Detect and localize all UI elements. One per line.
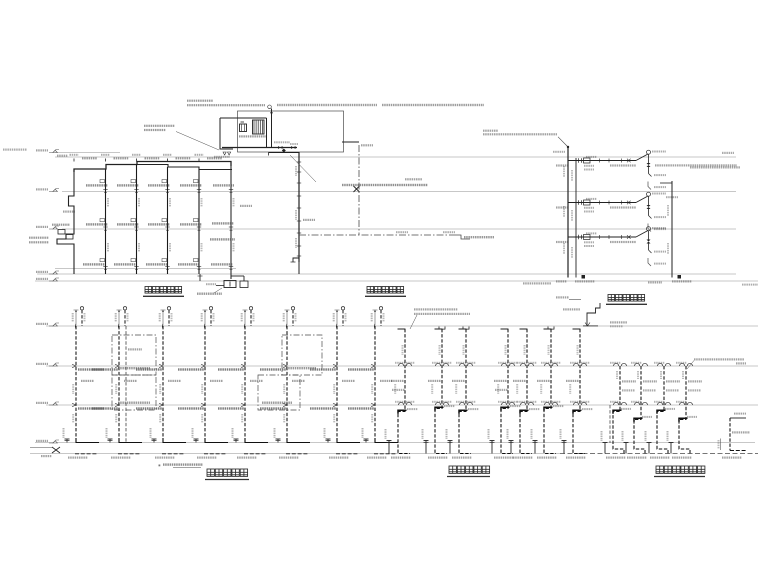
zone supply dashdot horizontal xyxy=(299,234,453,236)
condensate riser NL-3 pipe xyxy=(657,366,668,454)
right edge tiny text below ground xyxy=(742,284,758,286)
rain riser YL-4 bottom label xyxy=(494,457,514,459)
rain riser YL-5 bottom label xyxy=(513,457,533,459)
left margin note two lines xyxy=(29,237,49,239)
top right JL label xyxy=(722,152,734,154)
rain riser YL-2 floor symbols xyxy=(436,363,441,366)
sewage riser WL-1 label xyxy=(81,380,94,382)
supply right column extra row xyxy=(210,238,235,240)
label TL-2 near box xyxy=(128,348,142,350)
sewage riser WL-6 label xyxy=(292,380,305,382)
condensate riser NL-1 pipe xyxy=(613,366,624,454)
rain riser YL-1 pipe xyxy=(398,329,410,454)
riser JL-3 xyxy=(136,165,138,275)
condensate short riser far right xyxy=(730,417,746,419)
riser JL-4 xyxy=(167,167,169,274)
elevation flag y405 xyxy=(49,402,59,405)
plant manifold pipe xyxy=(222,147,297,149)
branch valve ticks xyxy=(599,159,601,163)
condensate riser NL-4 floor symbols xyxy=(680,363,685,366)
supply header XL labels xyxy=(82,157,97,159)
sewage riser WL-2 bottom label xyxy=(118,453,140,455)
rain riser YL-6 cleanout stub xyxy=(534,441,536,454)
condensate riser NL-2 floor symbols xyxy=(635,363,640,366)
elevation flag y281 xyxy=(49,278,59,281)
small meter boxes left xyxy=(58,230,65,235)
rain riser YL-6 bottom label xyxy=(537,457,557,459)
sewage riser WL-1 pipe xyxy=(75,326,77,443)
condensate riser NL-1 floor symbols xyxy=(614,363,619,366)
sprinkler heads count text xyxy=(610,206,636,208)
elevation flag y443 zero xyxy=(49,440,59,443)
test valve lower xyxy=(648,258,651,266)
sprinkler riser top flag xyxy=(558,137,568,147)
rain riser YL-7 floor symbols xyxy=(574,363,579,366)
condensate riser NL-2 label xyxy=(643,380,657,382)
rain riser YL-4 pipe xyxy=(501,329,513,454)
sewage riser WL-8 label xyxy=(380,380,393,382)
bathroom detail dashdot box lower xyxy=(112,375,156,410)
sewage riser WL-7 crossing texts xyxy=(310,368,336,370)
steam inlet circle xyxy=(268,105,272,109)
sewage riser WL-1 bottom label xyxy=(75,453,97,455)
supply block floor-crossing valve ticks xyxy=(103,189,107,191)
elevation mark -1.500 top left corner xyxy=(3,149,27,151)
floor line y191 xyxy=(62,191,736,193)
floor line y268 left block xyxy=(55,268,236,270)
sprinkler branch line xyxy=(568,160,636,162)
sewage riser WL-5 crossing texts xyxy=(218,368,244,370)
rain riser YL-1 bottom label xyxy=(391,457,411,459)
drain connection at roof line xyxy=(583,325,598,327)
sewage riser WL-3 bottom label xyxy=(162,453,184,455)
sewage riser WL-2 label xyxy=(124,380,137,382)
sprinkler right riser xyxy=(671,181,673,278)
floor line y274 xyxy=(37,273,736,275)
rain riser YL-7 label xyxy=(566,380,579,382)
rain riser YL-2 roof elbow xyxy=(435,329,443,331)
sewage riser WL-7 bottom label xyxy=(336,453,358,455)
sewage riser WL-6 vent xyxy=(292,310,294,326)
condensate riser NL-2 cleanout stub xyxy=(625,443,627,454)
steam source note line2 xyxy=(187,104,265,106)
rain riser YL-5 roof elbow xyxy=(520,329,528,331)
rain riser YL-1 roof elbow xyxy=(398,329,406,331)
elevation flag y366 xyxy=(49,363,59,366)
sprinkler second riser xyxy=(575,158,577,278)
condensate riser NL-2 pipe xyxy=(634,366,645,454)
sprinkler drain hook below title xyxy=(587,303,600,326)
condensate riser NL-1 bottom label xyxy=(606,457,626,459)
rain riser YL-1 floor symbols xyxy=(399,363,404,366)
sewage riser WL-5 vent xyxy=(250,310,252,326)
sewage riser WL-4 pipe xyxy=(204,326,206,443)
drop with bowtie valve xyxy=(648,154,650,163)
branch valve ticks xyxy=(599,201,601,205)
condensate riser NL-3 floor symbols xyxy=(658,363,663,366)
sewage riser WL-1 vent xyxy=(81,310,83,326)
supply header riser top ticks xyxy=(73,159,75,162)
rain riser YL-2 pipe xyxy=(435,329,447,454)
sewage riser WL-7 pipe xyxy=(336,326,338,443)
rain riser YL-3 floor symbols xyxy=(460,363,465,366)
sewage riser WL-4 bottom label xyxy=(204,453,226,455)
floor line y453 basement xyxy=(30,453,560,455)
sprinkler note line1 xyxy=(483,130,498,132)
rain riser YL-5 label xyxy=(513,380,526,382)
test valve lower xyxy=(648,224,651,232)
floor line top -1.500 (left stub) xyxy=(55,152,120,154)
sewage riser WL-8 crossing texts xyxy=(348,368,374,370)
hot water note right xyxy=(277,104,377,106)
sprinkler long note floor3 xyxy=(655,164,737,166)
sewage riser WL-7 vent xyxy=(342,310,344,326)
supply row2 right column xyxy=(212,222,233,224)
sprinkler branch line xyxy=(568,202,636,204)
heat exchanger tank 2 xyxy=(253,120,265,134)
rain riser YL-7 bottom label xyxy=(566,457,586,459)
riser DN labels between floors xyxy=(107,198,109,206)
manifold valve bowtie 2 xyxy=(291,146,296,149)
flow indicator circle xyxy=(647,227,651,231)
supply text row1 fixtures xyxy=(86,184,107,186)
rain riser YL-6 label xyxy=(537,380,550,382)
hot water plant room box xyxy=(238,111,344,152)
note above sewage title xyxy=(163,463,203,465)
title 雨水原理图 xyxy=(449,466,456,473)
riser JL-5 xyxy=(198,170,200,275)
sewage riser WL-6 pipe xyxy=(286,326,288,443)
pump spec text Q=0.3L/s xyxy=(342,184,428,186)
rain riser YL-6 floor symbols xyxy=(545,363,550,366)
supply text row3 fixtures xyxy=(83,263,104,265)
small riser tick near x200 xyxy=(199,274,201,281)
title 凝结水原理图 xyxy=(656,466,663,473)
test valve lower xyxy=(648,182,651,190)
bathroom detail box second upper xyxy=(282,335,322,375)
supply row1 right column xyxy=(213,184,234,186)
bottom connection labels xyxy=(523,282,551,284)
branch ZPL label left xyxy=(556,164,568,166)
condensate riser NL-1 label xyxy=(622,380,636,382)
rain riser YL-4 cleanout stub xyxy=(491,441,493,454)
condensate note right xyxy=(694,358,744,360)
condensate riser NL-4 label xyxy=(688,380,702,382)
black square marker left xyxy=(582,275,586,279)
elevation flag y326 xyxy=(49,323,59,326)
branch ZPL label left xyxy=(556,241,568,243)
leader diagonal xyxy=(176,132,219,151)
rain riser YL-7 pipe xyxy=(573,329,585,454)
sewage riser WL-8 vent xyxy=(380,310,382,326)
flow indicator riser diagonal xyxy=(636,196,648,203)
tank labels xyxy=(239,135,267,137)
sewage riser WL-3 vent xyxy=(168,310,170,326)
alarm valve assembly xyxy=(578,158,580,162)
drop with bowtie valve xyxy=(648,231,650,240)
rain riser YL-5 pipe xyxy=(520,329,532,454)
rain riser YL-3 roof elbow xyxy=(459,329,467,331)
rain riser YL-1 cleanout stub xyxy=(388,441,390,454)
condensate riser NL-3 label xyxy=(666,380,680,382)
steam source note line1 xyxy=(187,100,213,102)
rain riser YL-1 label xyxy=(391,380,404,382)
sewage riser WL-4 label xyxy=(210,380,223,382)
right margin note continuation xyxy=(690,166,740,168)
pump X symbol xyxy=(354,186,360,192)
manifold below valve diamond xyxy=(282,149,286,153)
supply text row2 fixtures xyxy=(86,223,107,225)
title 喷淋原理图 xyxy=(608,295,615,302)
elevation flag y191 xyxy=(49,189,59,192)
rain riser YL-3 pipe xyxy=(459,329,471,454)
flow indicator riser diagonal xyxy=(636,154,648,161)
condensate riser NL-1 cleanout stub xyxy=(604,443,606,454)
condensate floor1-only riser x=610 stub xyxy=(609,405,611,443)
elevation text +4.000 under sprinkler xyxy=(556,296,569,298)
condensate riser NL-3 bottom label xyxy=(650,457,670,459)
riser JL-1 xyxy=(73,169,75,192)
pump connection box bottom xyxy=(224,281,236,288)
rain riser YL-4 floor symbols xyxy=(502,363,507,366)
floor line y405 xyxy=(46,404,758,406)
floor line y229 xyxy=(62,228,736,230)
condensate riser NL-4 cleanout stub xyxy=(670,443,672,454)
rain riser YL-2 bottom label xyxy=(428,457,448,459)
rain riser YL-3 bottom label xyxy=(452,457,472,459)
manifold valve bowtie 1 xyxy=(278,146,283,149)
rain note text top xyxy=(414,308,457,310)
floor line y281 ground xyxy=(35,280,758,282)
floor line y326 xyxy=(46,325,758,327)
riser side labels xyxy=(295,166,297,176)
rain riser YL-6 roof elbow xyxy=(544,329,552,331)
sewage riser WL-5 label xyxy=(250,380,263,382)
cold water feed left drop xyxy=(220,118,233,149)
rain riser YL-5 cleanout stub xyxy=(510,441,512,454)
rain riser YL-7 roof elbow xyxy=(573,329,581,331)
sewage riser WL-2 vent xyxy=(124,310,126,326)
rain riser YL-2 label xyxy=(428,380,441,382)
rain riser YL-4 roof elbow xyxy=(501,329,509,331)
leader to city main text xyxy=(214,288,222,293)
drain X symbol bottom-left xyxy=(52,447,60,453)
title 热水原理图 xyxy=(367,287,374,294)
rain riser YL-3 label xyxy=(452,380,465,382)
floor line y366 xyxy=(46,365,758,367)
sewage riser WL-3 pipe xyxy=(162,326,164,443)
rain riser YL-7 cleanout stub xyxy=(563,441,565,454)
sprinkler note line2 xyxy=(483,133,557,135)
JL-1 lower zigzag to pump house xyxy=(69,192,75,230)
sewage riser WL-5 pipe xyxy=(244,326,246,443)
rain riser YL-3 cleanout stub xyxy=(449,441,451,454)
flow indicator riser diagonal xyxy=(636,231,648,238)
label near supply riser 6 xyxy=(240,205,252,207)
elevation flag y229 xyxy=(49,226,59,229)
supply header stepped main pipe xyxy=(74,162,231,173)
cold water feed top pipe xyxy=(220,117,267,119)
flow indicator circle xyxy=(647,192,651,196)
sewage riser WL-1 crossing texts xyxy=(78,368,104,370)
manifold second run below xyxy=(269,152,300,154)
sewage riser WL-6 crossing texts xyxy=(260,368,286,370)
rain note leader xyxy=(410,315,417,329)
drop with bowtie valve xyxy=(648,196,650,205)
sewage companion riser 1 xyxy=(125,326,127,443)
sprinkler heads count text xyxy=(610,164,636,166)
sprinkler heads count text xyxy=(610,241,636,243)
steam pipe drop into plant box xyxy=(271,109,273,148)
title 给水原理图 xyxy=(145,287,152,294)
DN label at pump xyxy=(206,283,216,285)
alarm valve assembly xyxy=(578,235,580,239)
elevation flag y152 xyxy=(49,150,59,153)
supply-from-below note xyxy=(144,125,175,127)
connection cluster flags at manifold left xyxy=(223,152,226,155)
condensate riser NL-2 bottom label xyxy=(627,457,647,459)
riser valve ticks xyxy=(297,161,301,163)
floor line y453 dashed right xyxy=(560,453,758,455)
flow indicator circle xyxy=(647,150,651,154)
riser bottom branch xyxy=(293,258,299,262)
sewage riser WL-6 bottom label xyxy=(286,453,308,455)
sewage riser WL-2 pipe xyxy=(118,326,120,443)
sewage riser WL-3 crossing texts xyxy=(136,368,162,370)
branch ZPL label left xyxy=(556,206,568,208)
elevation text -1.050 xyxy=(41,455,51,457)
sewage riser WL-8 pipe xyxy=(374,326,376,443)
left margin fixture text row2 xyxy=(52,224,70,226)
manifold labels xyxy=(274,141,290,143)
sewage riser WL-4 vent xyxy=(210,310,212,326)
hospital connection text xyxy=(464,236,494,238)
RL-1 branch from plant box xyxy=(342,141,359,143)
RL-1 drop dashdot xyxy=(358,145,360,235)
heat exchanger tank 1 xyxy=(240,124,247,132)
sewage riser WL-7 label xyxy=(342,380,355,382)
floor line y442 xyxy=(35,442,755,444)
branch valve ticks xyxy=(599,235,601,239)
rain riser YL-5 floor symbols xyxy=(521,363,526,366)
hot water outlet pipe xyxy=(266,118,268,148)
riser JL-2 xyxy=(105,169,107,274)
bathroom detail box second lower xyxy=(258,375,300,410)
condensate riser NL-4 bottom label xyxy=(672,457,692,459)
label JL-1 below top line xyxy=(57,155,67,157)
sewage riser WL-5 bottom label xyxy=(244,453,266,455)
sewage riser WL-8 bottom label xyxy=(374,453,396,455)
condensate riser NL-3 cleanout stub xyxy=(648,443,650,454)
pump second box xyxy=(240,281,248,288)
branch stub connections to right riser xyxy=(660,182,672,184)
rain riser YL-6 pipe xyxy=(544,329,556,454)
sewage riser WL-2 crossing texts xyxy=(92,368,118,370)
dashdot step to hospital xyxy=(453,235,470,239)
sewage riser WL-3 label xyxy=(168,380,181,382)
riser JL-6 right xyxy=(230,166,232,279)
condensate riser NL-4 pipe xyxy=(679,366,690,454)
label WL-JL near title xyxy=(563,308,580,310)
sewage riser WL-4 crossing texts xyxy=(178,368,204,370)
hot water riser RJL-1 xyxy=(298,152,300,262)
title 污水原理图 xyxy=(207,469,214,476)
rain riser YL-2 cleanout stub xyxy=(425,441,427,454)
black square marker right xyxy=(678,275,682,279)
riser rotated labels xyxy=(563,166,565,177)
elevation flag y274 xyxy=(49,271,59,274)
sprinkler branch line xyxy=(568,236,636,238)
supply row3 right column xyxy=(211,263,232,265)
bathroom detail dashdot box upper xyxy=(112,335,156,375)
rain riser YL-4 label xyxy=(494,380,507,382)
sprinkler main riser ZPL-1 xyxy=(567,147,569,278)
alarm valve assembly xyxy=(578,200,580,204)
pump leader diagonal xyxy=(290,155,316,182)
floor line roof y157 full width xyxy=(55,156,736,158)
